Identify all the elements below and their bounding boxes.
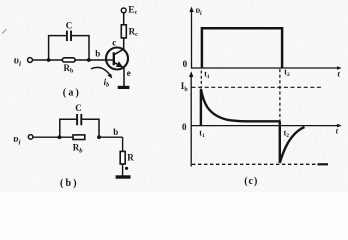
svg-text:c: c: [112, 38, 116, 48]
resistor R circuit (b): [120, 151, 125, 164]
transistor Q1 emitter line: [114, 62, 124, 67]
wire Rc to Ec terminal: [123, 13, 125, 25]
collector wire up to Rc: [123, 38, 125, 50]
ground circuit (b): [116, 175, 131, 178]
svg-text:R: R: [127, 152, 134, 162]
input terminal Ui circuit (a): [28, 58, 33, 63]
peak level dashed line: [192, 86, 323, 88]
node junction left circuit (a): [47, 58, 51, 62]
capacitor C circuit (a): [66, 31, 68, 41]
plot 2 t-axis: [191, 125, 339, 127]
plot 2 y-axis ib: [190, 74, 192, 167]
wire input to Rb circuit (a): [33, 59, 63, 61]
emitter wire down to ground: [123, 68, 125, 87]
ib arrowhead: [107, 74, 112, 79]
resistor Rb circuit (a): [62, 58, 75, 62]
plot 1 t-axis arrowhead: [337, 66, 342, 70]
dashed vertical at t2: [279, 69, 281, 126]
node junction left circuit (b): [58, 135, 62, 139]
node junction right circuit (b): [97, 135, 101, 139]
ib waveform negative spike recovery: [280, 121, 305, 163]
capacitor branch right wire circuit (a): [71, 36, 89, 60]
dashed vertical at t1: [200, 71, 202, 88]
plot 1 y-axis Ui: [191, 9, 193, 69]
node b junction circuit (a): [87, 58, 91, 62]
svg-text:(b): (b): [60, 178, 79, 189]
transistor Q1 circle: [106, 48, 128, 70]
terminal Ec: [121, 8, 126, 13]
input terminal Ui circuit (b): [28, 135, 33, 140]
plot 2 t-axis arrowhead: [337, 124, 342, 128]
stray dot near R: [125, 167, 128, 170]
resistor Rb circuit (b): [73, 135, 85, 140]
svg-text:(c): (c): [244, 176, 258, 187]
negative level dashed line: [192, 163, 316, 165]
plot 1 t-axis: [192, 67, 340, 69]
plot 1 y-axis arrowhead: [189, 7, 193, 13]
transistor Q1 base bar: [113, 52, 115, 65]
ib waveform positive pulse decay: [201, 89, 280, 126]
svg-text:0: 0: [182, 122, 187, 132]
svg-text:e: e: [127, 68, 131, 78]
svg-text:C: C: [75, 103, 82, 113]
scan noise texture: [0, 0, 1, 1]
wire Rb to base circuit (a): [75, 59, 114, 61]
stray scan mark top-left: [2, 29, 6, 33]
svg-text:b: b: [95, 49, 100, 59]
transistor Q1 emitter arrowhead: [116, 61, 123, 67]
ground circuit (a): [118, 86, 130, 89]
capacitor branch left wire circuit (b): [60, 119, 77, 137]
capacitor branch right wire circuit (b): [82, 119, 99, 137]
ib current arrow arc: [91, 67, 111, 76]
capacitor C circuit (b): [76, 114, 78, 125]
resistor Rc: [121, 25, 126, 38]
wire node to b corner circuit (b): [99, 136, 123, 138]
wire b down to R circuit (b): [122, 137, 124, 151]
svg-text:b: b: [113, 127, 118, 137]
negative level solid end segment: [318, 163, 329, 165]
pulse waveform Ui: [202, 28, 282, 68]
wire input to Rb circuit (b): [33, 136, 73, 138]
plot 2 y-axis arrowhead: [189, 71, 193, 77]
svg-text:0: 0: [183, 59, 188, 69]
transistor Q1 collector line: [114, 49, 124, 55]
svg-text:(a): (a): [63, 87, 81, 98]
svg-text:C: C: [66, 20, 73, 30]
wire R to ground circuit (b): [122, 164, 124, 176]
capacitor branch left wire circuit (a): [49, 36, 67, 60]
